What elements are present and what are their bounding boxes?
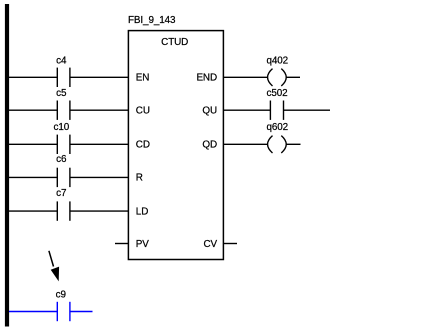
wire c9 row: after contact c9 (selected, blue) (70, 311, 93, 313)
wire EN row: contact c4 to block (70, 76, 128, 78)
function block U1 CTUD body (128, 31, 223, 260)
wire EN row: rail to contact c4 (9, 76, 57, 78)
label FBI_9_143 (128, 15, 176, 26)
wire c9 row: rail to contact c9 (selected, blue) (9, 311, 57, 313)
contact c5 (57, 101, 70, 120)
svg-text:EN: EN (136, 73, 150, 84)
pin EN (136, 73, 150, 84)
label c10 (53, 122, 69, 133)
pin PV (136, 239, 149, 250)
wire R row: rail to contact c6 (9, 176, 57, 178)
contact c10 (57, 135, 70, 154)
wire END row: block to coil q402 (224, 76, 268, 78)
svg-text:q402: q402 (267, 56, 289, 67)
wire CV output stub (224, 243, 238, 245)
svg-text:FBI_9_143: FBI_9_143 (128, 15, 176, 26)
svg-text:c9: c9 (56, 290, 67, 301)
svg-text:c502: c502 (266, 88, 287, 99)
svg-text:PV: PV (136, 239, 149, 250)
contact c9 (selected, blue) (57, 302, 70, 321)
label c6 (56, 154, 67, 165)
left power rail (5, 4, 9, 327)
wire LD row: rail to contact c7 (9, 210, 57, 212)
contact c7 (57, 201, 70, 220)
coil q402 (268, 69, 287, 86)
pin LD (136, 206, 148, 217)
wire QU row: after contact c502 (284, 109, 331, 111)
svg-text:c7: c7 (56, 188, 66, 199)
svg-text:c10: c10 (53, 122, 69, 133)
label q402 (267, 56, 289, 67)
svg-text:QD: QD (202, 140, 217, 151)
svg-text:CD: CD (136, 140, 150, 151)
svg-text:CU: CU (136, 106, 150, 117)
mouse cursor arrow (49, 251, 59, 282)
svg-text:c5: c5 (56, 88, 67, 99)
label c502 (266, 88, 287, 99)
wire QD row: after coil q602 (286, 143, 300, 145)
pin CV (203, 239, 217, 250)
svg-text:END: END (196, 73, 217, 84)
label q602 (267, 122, 289, 133)
coil q602 (268, 136, 287, 153)
wire END row: after coil q402 (286, 76, 300, 78)
pin CU (136, 106, 150, 117)
wire LD row: contact c7 to block (70, 210, 128, 212)
svg-text:c6: c6 (56, 154, 67, 165)
contact c502 (270, 101, 283, 120)
label c7 (56, 188, 66, 199)
wire CD row: rail to contact c10 (9, 143, 57, 145)
label CTUD (161, 37, 188, 48)
wire QU row: block to contact c502 (224, 109, 271, 111)
svg-text:q602: q602 (267, 122, 289, 133)
wire CU row: contact c5 to block (70, 109, 128, 111)
pin QU (202, 106, 217, 117)
svg-text:CTUD: CTUD (161, 37, 188, 48)
contact c4 (57, 68, 70, 87)
svg-text:QU: QU (202, 106, 217, 117)
wire CU row: rail to contact c5 (9, 109, 57, 111)
svg-text:CV: CV (203, 239, 217, 250)
label c9 (56, 290, 67, 301)
pin R (136, 173, 143, 184)
wire QD row: block to coil q602 (224, 143, 268, 145)
wire R row: contact c6 to block (70, 176, 128, 178)
pin CD (136, 140, 150, 151)
wire CD row: contact c10 to block (70, 143, 128, 145)
svg-text:c4: c4 (56, 56, 67, 67)
contact c6 (57, 168, 70, 187)
svg-text:LD: LD (136, 206, 148, 217)
svg-text:R: R (136, 173, 143, 184)
wire PV input stub (115, 243, 128, 245)
label c4 (56, 56, 67, 67)
pin END (196, 73, 217, 84)
label c5 (56, 88, 67, 99)
pin QD (202, 140, 217, 151)
